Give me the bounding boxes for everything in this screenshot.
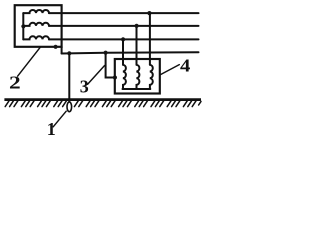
earth electrode 1 (oval) (67, 102, 72, 112)
ground hatching (5, 101, 201, 107)
node: tap dot phase A (147, 11, 151, 15)
load winding 1 (123, 65, 126, 89)
load box 4 (consumer enclosure) (115, 59, 160, 94)
winding L3 (bottom coil of transformer) (23, 36, 49, 39)
node: bus junction dot (21, 24, 25, 28)
node: tap dot phase C (121, 37, 125, 41)
svg-text:2: 2 (9, 72, 21, 93)
node: tap dot phase B (135, 24, 139, 28)
wire: earthing conductor down to electrode (68, 53, 70, 101)
load winding 2 (137, 65, 140, 89)
wire: phase line C (49, 38, 199, 40)
node: dot on load enclosure (113, 75, 117, 79)
load winding 3 (150, 65, 153, 89)
svg-text:3: 3 (80, 77, 89, 97)
wire: phase line B (49, 25, 199, 27)
pointer to label 4 (160, 65, 179, 75)
wire: phase line A (49, 12, 199, 14)
node: earthing tap dot on line D (67, 51, 71, 55)
pointer to label 2 (18, 47, 41, 76)
wire: neutral step down from box 2 corner (61, 47, 63, 54)
winding L1 (top coil of transformer) (23, 10, 49, 13)
wire: protective conductor down and to load enclosure (106, 53, 115, 78)
svg-text:1: 1 (47, 119, 56, 137)
wire: drop from phase A to load (149, 13, 151, 65)
wire: load star-point bar (123, 88, 151, 90)
svg-text:4: 4 (180, 57, 191, 76)
node: neutral dot on box 2 bottom edge (54, 45, 58, 49)
winding L2 (middle coil of transformer) (23, 23, 49, 26)
pointer to label 3 (88, 66, 105, 85)
pointer to label 1 (53, 111, 66, 127)
ground surface line (4, 98, 201, 101)
neutral bus in box 2 (22, 13, 24, 39)
node: PEN tap dot (protective conductor 3) (104, 51, 108, 55)
transformer box 2 (source enclosure) (15, 5, 62, 47)
wire: PEN line D (62, 52, 199, 53)
wire: drop from phase C to load (122, 39, 124, 64)
wire: drop from phase B to load (136, 26, 138, 65)
